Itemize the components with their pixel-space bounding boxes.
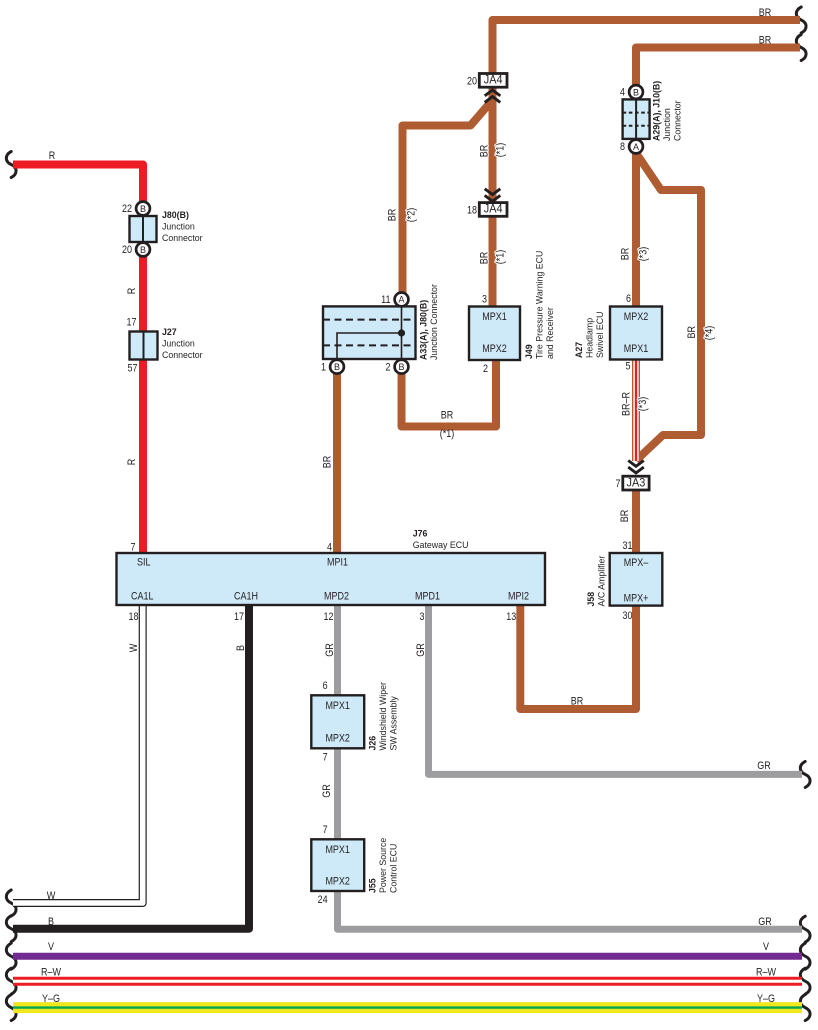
switch J26 Windshield Wiper box [311,695,364,748]
svg-text:JA3: JA3 [627,477,646,489]
svg-text:J80(B): J80(B) [162,210,189,221]
svg-text:W: W [128,643,140,652]
wire BR from JA4 pin 18 to J49 pin 3 [489,214,497,309]
svg-text:JA4: JA4 [484,75,503,87]
svg-text:BR: BR [759,7,772,19]
svg-text:R: R [126,459,138,466]
pin 4 of A29 [620,87,625,99]
svg-text:GR: GR [415,643,427,657]
svg-text:BR: BR [571,696,584,708]
svg-text:MPX–: MPX– [624,557,649,569]
svg-text:Y–G: Y–G [42,993,60,1005]
svg-text:3: 3 [482,294,487,306]
pin label MPX1 of A27 [624,343,649,355]
label W rotated on CA1L wire [128,643,140,652]
pin 7 of J26 [323,752,328,764]
wire B (black) from J76 CA1H to left edge [13,603,249,929]
svg-text:11: 11 [381,294,390,306]
label GR near right edge middle [757,760,771,772]
svg-text:BR–R: BR–R [620,392,632,416]
wire BR second line through A29 to A27 pin 6 [636,48,800,310]
wire BR from JA3 to J58 pin 31 [632,488,640,556]
pin 6 of A27 [626,293,631,305]
svg-text:6: 6 [626,293,631,305]
svg-text:5: 5 [626,361,631,373]
label Y-G left [42,993,60,1005]
svg-text:7: 7 [131,542,136,554]
pin circle B pin 2 of A33 [395,360,409,374]
label J55 Power Source Control ECU [368,838,400,893]
label J49 Tire Pressure Warning ECU and Receiver [524,251,556,359]
label B near left edge [48,916,54,928]
svg-text:17: 17 [234,611,244,623]
pin 11 of A33 [381,294,390,306]
svg-text:B: B [140,245,146,256]
svg-text:B: B [48,916,54,928]
wire V (violet) bus [13,953,802,960]
pin 2 of J49 [483,363,488,375]
svg-text:18: 18 [129,611,139,623]
internal wire of A33 junction [337,299,405,367]
svg-text:CA1H: CA1H [234,591,258,603]
label B rotated on CA1H wire [235,645,247,651]
svg-text:R: R [126,288,138,295]
wire BR branch (*4) from A29 pin 8 to JA3 [636,153,701,461]
junction connector A29(A) J10(B) box [623,99,650,138]
break symbol left of wire Y-G [6,995,16,1021]
label A33(A) J80(B) Junction Connector [419,283,441,360]
svg-text:Junction Connector: Junction Connector [429,283,440,360]
svg-text:MPX2: MPX2 [325,733,350,745]
svg-text:Junction: Junction [662,108,673,141]
svg-text:MPI1: MPI1 [327,557,348,569]
label BR JA3 to J58 [619,510,631,523]
label GR on MPD1 wire [415,643,427,657]
label A27 Headlamp Swivel ECU [574,311,606,358]
svg-text:Tire Pressure Warning ECU: Tire Pressure Warning ECU [535,251,546,359]
pin 22 of J80(B) [122,203,132,215]
pin 3 of J76 [420,611,425,623]
pin label MPD2 of J76 [324,591,349,603]
label Y-G right [757,993,775,1005]
svg-text:Power Source: Power Source [378,838,389,893]
label BR on lower U-shape [571,696,584,708]
svg-text:W: W [47,890,56,902]
pin 17 of J27 [127,317,137,329]
wire R-W (red-white) bus [13,977,802,986]
label R-W left [41,967,61,979]
svg-text:18: 18 [467,205,477,217]
wire Y-G (yellow-green) bus [13,1002,802,1013]
svg-text:(*1): (*1) [495,143,507,158]
pin label CA1H of J76 [234,591,258,603]
label V left [48,941,55,953]
svg-text:BR: BR [619,510,631,523]
svg-text:J49: J49 [524,344,535,359]
pin label MPX+ of J58 [624,593,649,605]
pin label MPX- of J58 [624,557,649,569]
svg-text:Connector: Connector [162,233,203,244]
pin 57 of J27 [128,362,138,374]
svg-text:MPX1: MPX1 [325,844,350,856]
wire BR between JA4 connectors [489,85,497,206]
svg-text:12: 12 [324,611,334,623]
svg-text:MPD1: MPD1 [415,591,440,603]
pin 4 of J76 [327,542,332,554]
pin 3 of J49 [482,294,487,306]
pin label MPX1 of J26 [325,700,350,712]
label V right [763,941,770,953]
pin 2 of A33 [386,361,391,373]
pin label MPX1 of J49 [482,311,507,323]
label BR (*1) upper segment [479,143,507,158]
junction connector J27 box [130,332,158,360]
svg-text:8: 8 [620,141,625,153]
svg-text:31: 31 [623,540,633,552]
svg-text:(*2): (*2) [406,208,418,223]
svg-text:BR: BR [322,456,334,469]
svg-text:J27: J27 [162,327,177,338]
pin 5 of A27 [626,361,631,373]
junction connector J80(B) box [130,216,157,242]
wire BR-R from A27 pin 5 to JA3 [632,357,640,461]
svg-text:Windshield Wiper: Windshield Wiper [378,681,389,750]
label BR-R (*3) [620,392,649,416]
double chevron above JA4 pin 18 [485,189,501,201]
pin label MPX1 of J55 [325,844,350,856]
break symbol left of wire B [6,916,16,942]
svg-text:A: A [633,142,640,153]
label GR on MPD2 wire [324,643,336,657]
pin circle B top of J80(B) [136,202,150,216]
svg-text:MPX2: MPX2 [325,876,350,888]
break symbol right of wire V [800,943,810,969]
label W near left edge [47,890,56,902]
svg-text:J58: J58 [586,591,597,606]
label J26 Windshield Wiper SW Assembly [368,681,400,750]
pin 8 of A29 [620,141,625,153]
svg-text:A/C Amplifier: A/C Amplifier [597,555,608,607]
svg-text:57: 57 [128,362,138,374]
svg-text:7: 7 [323,752,328,764]
svg-text:6: 6 [323,680,328,692]
label BR (*1) on U-shape [440,410,455,441]
label BR on top line [759,7,772,19]
pin label MPI1 of J76 [327,557,348,569]
pin 7 of J55 [323,824,328,836]
break symbol left of wire V [6,943,16,969]
svg-text:B: B [334,362,340,373]
svg-text:B: B [633,87,639,98]
break symbol right of GR output wire [800,916,810,942]
label BR (*1) lower segment [479,250,507,265]
svg-text:17: 17 [127,317,137,329]
relay connector JA4 pin 20 [467,74,507,88]
svg-text:Junction: Junction [162,339,195,350]
svg-text:GR: GR [324,643,336,657]
relay connector JA3 pin 7 [616,476,650,490]
svg-text:2: 2 [386,361,391,373]
break symbol right of GR MPD1 wire [800,761,810,787]
pin label SIL of J76 [137,557,151,569]
label R-W right [756,967,776,979]
label BR on MPI1 wire [322,456,334,469]
svg-text:4: 4 [620,87,625,99]
double chevron below JA4 pin 20 [485,90,501,102]
pin label MPX2 of A27 [624,311,649,323]
svg-text:BR: BR [441,410,454,422]
svg-text:Swivel ECU: Swivel ECU [595,311,606,358]
pin 12 of J76 [324,611,334,623]
svg-text:BR: BR [387,209,399,222]
wire BR branch (*2) to A33 pin 11 [403,100,493,296]
svg-text:Junction: Junction [162,222,195,233]
pin 1 of A33 [321,361,326,373]
svg-text:22: 22 [122,203,132,215]
svg-text:(*3): (*3) [638,247,650,262]
wire R (red) from break to J76 pin 7 [13,165,143,557]
pin 17 of J76 [234,611,244,623]
svg-text:CA1L: CA1L [131,591,154,603]
label BR (*2) [387,208,418,223]
pin circle B pin 1 of A33 [330,360,344,374]
svg-text:A27: A27 [574,342,585,358]
svg-text:MPI2: MPI2 [508,591,529,603]
svg-text:GR: GR [757,760,771,772]
svg-text:BR: BR [759,35,772,47]
svg-text:R–W: R–W [41,967,61,979]
svg-text:7: 7 [323,824,328,836]
svg-text:2: 2 [483,363,488,375]
svg-text:MPX1: MPX1 [482,311,507,323]
svg-text:Connector: Connector [673,100,684,141]
svg-text:(*1): (*1) [440,428,455,440]
break symbol left of wire R [6,152,16,178]
pin circle A pin 11 of A33 [395,293,409,307]
svg-text:MPX1: MPX1 [624,343,649,355]
svg-text:JA4: JA4 [484,204,503,216]
junction connector A33(A) J80(B) box [323,306,416,359]
break symbol left of wire R-W [6,968,16,994]
svg-text:J55: J55 [368,878,379,893]
label J27 Junction Connector [162,327,203,361]
break symbol right of wire BR top line [796,7,806,33]
pin 24 of J55 [318,894,328,906]
svg-text:GR: GR [758,916,772,928]
svg-text:3: 3 [420,611,425,623]
pin 30 of J58 [623,610,633,622]
svg-text:MPX2: MPX2 [624,311,649,323]
pin label MPD1 of J76 [415,591,440,603]
pin label MPX2 of J55 [325,876,350,888]
break symbol right of wire BR second line [796,35,806,61]
pin 20 of J80(B) [122,244,132,256]
wire BR from A33 pin 1 to J76 MPI1 [333,367,341,556]
svg-text:J26: J26 [368,736,379,751]
label BR (*3) above A27 [619,247,649,262]
label R on horizontal red wire [49,150,56,162]
ECU J55 Power Source Control box [311,839,364,891]
svg-text:J76: J76 [413,529,428,540]
svg-text:13: 13 [506,611,516,623]
label J58 A/C Amplifier [586,555,608,607]
svg-text:20: 20 [467,76,477,88]
svg-text:BR: BR [619,248,631,261]
pin 31 of J58 [623,540,633,552]
svg-text:GR: GR [321,784,333,798]
double chevron above JA3 [628,461,644,473]
break symbol right of wire R-W [800,968,810,994]
pin circle A pin 8 of A29 [629,140,643,154]
svg-text:24: 24 [318,894,328,906]
pin label MPX2 of J26 [325,733,350,745]
label BR (*4) [686,326,716,341]
pin 7 of J76 [131,542,136,554]
svg-text:B: B [399,362,405,373]
pin 18 of J76 [129,611,139,623]
label R rotated between J27 and J76 [126,459,138,466]
svg-text:MPD2: MPD2 [324,591,349,603]
wire GR from J76 MPD1 to right edge [429,603,803,774]
svg-text:A33(A), J80(B): A33(A), J80(B) [419,300,430,360]
svg-text:BR: BR [479,252,491,265]
wire W (white) from J76 CA1L to left edge [13,602,143,903]
svg-text:30: 30 [623,610,633,622]
wire BR top line to JA4 pin 20 [493,20,801,76]
label GR near right edge bottom [758,916,772,928]
pin label MPX2 of J49 [482,343,507,355]
svg-text:MPX+: MPX+ [624,593,649,605]
svg-text:MPX1: MPX1 [325,700,350,712]
svg-text:20: 20 [122,244,132,256]
pin circle B pin 4 of A29 [629,85,643,99]
svg-text:A29(A), J10(B): A29(A), J10(B) [652,81,663,141]
break symbol right of wire Y-G [800,995,810,1021]
svg-text:SW Assembly: SW Assembly [389,696,400,750]
wire BR U-shape A33 pin 2 to J49 pin 2 [402,357,497,427]
label A29(A) J10(B) Junction Connector [652,81,684,141]
pin label MPI2 of J76 [508,591,529,603]
label BR on second top line [759,35,772,47]
svg-text:BR: BR [686,326,698,339]
svg-text:1: 1 [321,361,326,373]
label J80(B) Junction Connector [162,210,203,244]
wire GR from J26 pin 7 to J55 pin 7 [334,746,341,842]
wire BR U-shape J58 pin 30 to J76 MPI2 [520,603,636,709]
svg-text:Gateway ECU: Gateway ECU [413,540,469,551]
svg-text:(*4): (*4) [704,326,716,341]
svg-text:B: B [140,204,146,215]
svg-text:7: 7 [616,478,621,490]
wire GR from J55 pin 24 to right edge [338,889,803,929]
svg-text:(*3): (*3) [637,397,649,412]
svg-text:and Receiver: and Receiver [545,306,556,359]
ECU A27 Headlamp Swivel box [610,307,662,360]
svg-text:V: V [48,941,55,953]
svg-text:4: 4 [327,542,332,554]
wire GR from J76 MPD2 to J26 pin 6 [334,603,341,698]
pin 13 of J76 [506,611,516,623]
svg-text:(*1): (*1) [495,250,507,265]
ECU J49 Tire Pressure Warning box [469,307,520,361]
label J76 Gateway ECU [413,529,469,552]
pin 6 of J26 [323,680,328,692]
svg-text:MPX2: MPX2 [482,343,507,355]
svg-text:Y–G: Y–G [757,993,775,1005]
ECU J76 Gateway box [117,553,546,605]
svg-text:A: A [399,295,406,306]
svg-text:R–W: R–W [756,967,776,979]
label GR between J26 and J55 [321,784,333,798]
label R rotated between J80(B) and J27 [126,288,138,295]
pin label CA1L of J76 [131,591,154,603]
svg-text:B: B [235,645,247,651]
svg-text:BR: BR [479,145,491,158]
svg-text:SIL: SIL [137,557,151,569]
ECU J58 A/C Amplifier box [610,553,663,606]
svg-text:Connector: Connector [162,350,203,361]
relay connector JA4 pin 18 [467,203,507,217]
svg-text:R: R [49,150,56,162]
svg-text:V: V [763,941,770,953]
break symbol left of wire W [6,890,16,916]
svg-text:Headlamp: Headlamp [585,318,596,358]
pin circle B bottom of J80(B) [136,243,150,257]
svg-text:Control ECU: Control ECU [389,844,400,893]
